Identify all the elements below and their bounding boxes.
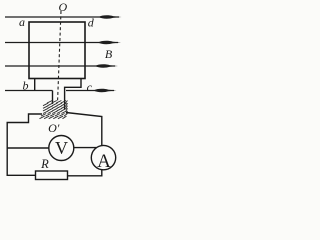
- svg-text:a: a: [19, 15, 25, 29]
- svg-text:A: A: [97, 151, 111, 172]
- svg-text:d: d: [88, 16, 95, 30]
- svg-text:O: O: [58, 0, 67, 14]
- svg-text:c: c: [87, 80, 93, 94]
- svg-text:R: R: [40, 157, 49, 171]
- svg-text:b: b: [23, 79, 29, 93]
- svg-text:B: B: [105, 47, 113, 61]
- svg-text:O′: O′: [48, 121, 60, 135]
- svg-text:V: V: [55, 138, 68, 158]
